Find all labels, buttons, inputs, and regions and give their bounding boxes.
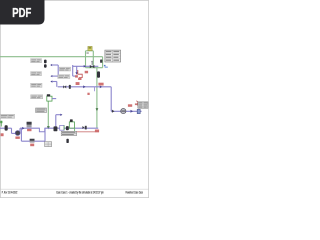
- arrow on H2: [83, 85, 85, 88]
- blob D on bottom line: [66, 126, 69, 130]
- blob E below line: [66, 139, 68, 143]
- blob on energy vertical: [97, 71, 100, 77]
- label red under valve: [85, 71, 88, 74]
- label red left edge: [1, 133, 4, 136]
- wire stub vertical: [56, 82, 58, 87]
- arrow on bottom main at x23: [22, 127, 24, 130]
- PDF badge: [0, 0, 45, 25]
- wire bracket1 top: [52, 64, 58, 66]
- arrow-valve on bottom line: [82, 126, 84, 129]
- dark bar on H2: [69, 85, 71, 89]
- label box b2: [31, 72, 42, 76]
- arrow on H3 right: [131, 110, 134, 113]
- arrow energy terminus: [47, 126, 50, 129]
- wire V right: [110, 87, 112, 112]
- wire energy rectB right vertical: [102, 57, 104, 68]
- label box b1: [31, 59, 42, 63]
- red marks under junction: [75, 75, 78, 77]
- wire trap U detour: [39, 128, 44, 132]
- label red recycle: [78, 78, 81, 80]
- label red at green V bottom: [95, 130, 99, 133]
- pump A blob: [5, 125, 8, 130]
- wire red recycle loop: [78, 70, 82, 78]
- pump B circle: [15, 131, 20, 136]
- arrow on energy long vertical: [96, 108, 99, 111]
- wire bottom main long right: [45, 127, 98, 129]
- svg-text:Flowsheet Case Case: Flowsheet Case Case: [126, 190, 144, 194]
- arrow bracket1 top tip: [50, 64, 52, 66]
- wire tank stub up: [55, 115, 57, 129]
- label red left of table2: [136, 101, 139, 106]
- label box b6 edge: [0, 114, 15, 118]
- pump circle on H3: [121, 109, 126, 114]
- wire bottom main long left: [20, 127, 39, 129]
- wire top line: [73, 65, 99, 67]
- label red above H2: [98, 83, 103, 86]
- wire bracket1 vertical: [57, 65, 59, 76]
- svg-text:P. Rev 13 04-2022: P. Rev 13 04-2022: [2, 190, 18, 194]
- valve V1 on top line: [90, 65, 95, 68]
- property table2 right: [138, 102, 148, 108]
- arrow on H2 right: [100, 86, 102, 89]
- wire bracket1 bottom: [53, 75, 59, 77]
- red label above H2 left: [76, 82, 80, 85]
- wire stub left arrow: [53, 81, 57, 83]
- olive spreadsheet block top: [88, 46, 92, 50]
- heater block on bypass: [30, 139, 35, 143]
- green feed component left edge: [0, 121, 2, 127]
- wire pump dip bottom: [12, 132, 16, 134]
- dark comp on line x54: [54, 126, 58, 131]
- wire tank stub right: [56, 114, 62, 116]
- page background: [0, 0, 149, 198]
- arrow on top line: [84, 65, 86, 68]
- label table b9: [61, 131, 76, 135]
- wire bypass up: [44, 128, 46, 141]
- wire green stub down from S2: [74, 128, 76, 132]
- separator S3 on bottom line: [60, 125, 64, 130]
- wire energy rectA right vertical: [92, 51, 94, 68]
- wire pump dip down: [11, 128, 13, 133]
- purple drop stub on H2: [94, 87, 96, 91]
- property table1 top right: [105, 50, 121, 62]
- label box b3: [31, 83, 42, 87]
- label red above H3: [128, 104, 132, 107]
- wire energy rectA left vertical: [85, 51, 87, 68]
- label table b5: [36, 108, 47, 113]
- label red under cooler: [27, 129, 31, 131]
- wire junction vertical down: [76, 66, 78, 73]
- label red under bypass heater: [30, 144, 34, 147]
- wire bypass bottom: [21, 140, 45, 142]
- compressor dark on rectB top: [100, 60, 102, 63]
- product block end H3: [137, 109, 140, 113]
- arrow stub tip: [50, 80, 52, 82]
- wire bracket2 bottom stub: [73, 75, 77, 77]
- label box b8: [58, 75, 70, 79]
- page border: [0, 0, 148, 197]
- wire energy from heater S1 down: [47, 101, 49, 128]
- wire bottom main from left edge: [0, 127, 12, 129]
- label box b7: [59, 67, 70, 71]
- wire energy bottom horizontal: [86, 67, 103, 69]
- wire red line under bottom main: [64, 131, 99, 133]
- footer rule: [1, 188, 149, 190]
- label red under pump B: [15, 137, 19, 139]
- wire purple stub from S1: [52, 98, 56, 100]
- label table b10: [45, 142, 52, 147]
- wire main H2: [58, 86, 111, 88]
- red dot below H2: [87, 93, 89, 95]
- svg-text:Case Case 1 - created by the s: Case Case 1 - created by the simulator a…: [56, 190, 104, 194]
- wire energy long vertical: [96, 68, 98, 129]
- cooler block: [27, 122, 32, 128]
- arrow bracket1 bottom tip: [50, 75, 52, 77]
- blue label near line end: [104, 65, 106, 66]
- arrow on H3 after corner: [112, 110, 115, 113]
- wire bypass down: [20, 128, 22, 141]
- arrow stub end: [60, 114, 62, 116]
- heater S2 green square with cap: [69, 122, 74, 128]
- wire bracket2 vertical: [72, 65, 74, 76]
- heater S1 green square with cap: [47, 96, 52, 101]
- wire energy rectA top horizontal: [86, 50, 94, 52]
- blob top-left standing: [44, 60, 47, 64]
- wire energy main horizontal: [0, 56, 103, 58]
- valve bowtie on H2: [63, 85, 66, 88]
- label box b4: [31, 95, 43, 99]
- wire pump up: [19, 128, 21, 133]
- label gray R in loop: [86, 52, 88, 54]
- arrow junction bottom: [75, 72, 78, 75]
- wire main H3: [111, 110, 141, 112]
- svg-text:PDF: PDF: [12, 5, 31, 20]
